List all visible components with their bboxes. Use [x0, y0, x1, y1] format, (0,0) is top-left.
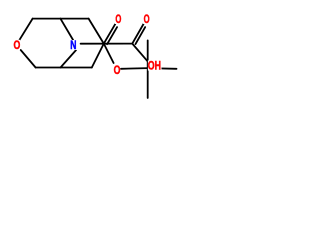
svg-text:N: N	[70, 40, 76, 52]
node OH hydroxyl label	[148, 60, 162, 72]
wire C6-C5-C4 bottom edge	[36, 67, 92, 69]
svg-text:O: O	[115, 14, 121, 26]
wire CtBu methyl down	[147, 68, 149, 98]
wire C10=O1 double bond second line	[107, 27, 117, 44]
node Oa acid carbonyl oxygen label	[143, 14, 150, 26]
wire C8-C7 bond	[89, 19, 104, 44]
wire C1-N bond	[60, 19, 73, 40]
wire C10=O1 double bond main line	[104, 24, 116, 44]
wire N-C10 and C7-Cacid horizontal bond	[81, 43, 133, 45]
node O2 ester oxygen label	[113, 65, 121, 77]
node O1 carbonyl oxygen label	[115, 14, 122, 26]
wire C10-O2 ester bond	[104, 44, 114, 63]
wire Cacid-OH bond	[132, 44, 147, 62]
svg-text:O: O	[14, 40, 21, 52]
svg-text:O: O	[144, 14, 150, 26]
wire C4-O3 bond	[21, 50, 36, 68]
svg-text:OH: OH	[148, 61, 161, 73]
wire Cacid=Oa double bond main line	[132, 24, 143, 44]
wire N-C5 bond	[61, 50, 77, 67]
wire CtBu methyl up	[147, 40, 149, 68]
wire CtBu methyl right	[148, 67, 177, 70]
wire O3-C2 bond	[20, 19, 33, 40]
wire C7-C6 bond	[92, 44, 104, 68]
wire O2-CtBu bond	[121, 67, 148, 70]
wire C2-C1-C8 top edge	[33, 18, 89, 20]
node N9 nitrogen label	[70, 40, 77, 52]
svg-text:O: O	[114, 65, 121, 77]
node O3 ring oxygen label	[13, 40, 21, 52]
wire Cacid=Oa double bond second line	[136, 27, 146, 44]
